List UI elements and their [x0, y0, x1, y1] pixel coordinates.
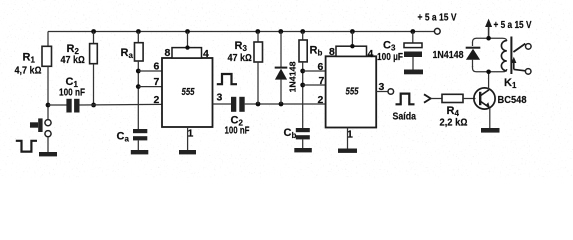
- waveform: IC1 output pulse: [217, 74, 237, 84]
- node: junction R2 on C1 wire: [91, 103, 96, 108]
- svg-text:3: 3: [217, 91, 223, 103]
- node: junction R1/C1 wire: [46, 103, 51, 108]
- wire: C1 right to IC1 pin 2: [80, 103, 163, 106]
- transistor Q1 BC548: [474, 88, 527, 109]
- wire: R1 bottom to pushbutton: [47, 66, 49, 119]
- svg-text:2: 2: [318, 94, 324, 106]
- svg-text:+ 5 a 15 V: + 5 a 15 V: [418, 13, 457, 24]
- arrow: signal into R4: [424, 94, 442, 102]
- wire: C3 to ground: [412, 57, 414, 70]
- svg-text:47 kΩ: 47 kΩ: [61, 55, 86, 66]
- ground: IC1 pin 1: [179, 150, 196, 154]
- svg-text:7: 7: [319, 75, 325, 87]
- ground: IC2 pin 1: [338, 149, 357, 153]
- svg-text:555: 555: [346, 87, 359, 98]
- node: Ra line junction pin6: [136, 69, 141, 74]
- wire: Ra bottom down to Ca: [137, 61, 139, 129]
- svg-text:4,7 kΩ: 4,7 kΩ: [15, 66, 42, 77]
- ground: below Cb: [294, 148, 312, 152]
- wire: C2 to IC2 pin 2: [245, 103, 326, 105]
- wire: relay top: [473, 38, 507, 46]
- pushbutton S1 contact circles: [45, 120, 51, 137]
- pin 7 label IC2: [319, 75, 325, 87]
- wire: C1 left segment: [48, 104, 67, 106]
- capacitor Ca: [117, 129, 148, 144]
- svg-text:100 nF: 100 nF: [59, 87, 85, 98]
- svg-text:6: 6: [318, 61, 324, 73]
- svg-text:47 kΩ: 47 kΩ: [228, 53, 253, 64]
- wire: Ra from rail: [137, 32, 139, 43]
- pin 1 label IC1: [188, 127, 194, 139]
- resistor R1: [15, 46, 52, 76]
- svg-text:+ 5 a 15 V: + 5 a 15 V: [494, 20, 532, 31]
- wire: R2 bottom to C1 wire: [93, 64, 95, 105]
- svg-text:8: 8: [165, 47, 171, 59]
- wire: collector up to relay: [488, 72, 490, 90]
- diode D1 1N4148: [275, 32, 298, 105]
- node: junction R3 on pin2 wire: [256, 102, 261, 107]
- svg-text:BC548: BC548: [498, 94, 527, 106]
- wire: to IC2 pin 7: [303, 84, 326, 86]
- wire: to IC1 pin 6: [138, 70, 162, 72]
- svg-text:6: 6: [154, 61, 160, 73]
- wire: Ca to ground: [137, 140, 139, 150]
- capacitor C1: [59, 76, 85, 112]
- wire: to IC1 pin 7: [138, 86, 162, 88]
- resistor Rb: [299, 40, 322, 62]
- resistor R3: [228, 40, 263, 64]
- waveform: negative trigger pulse: [16, 141, 37, 152]
- wire: Cb to ground: [302, 139, 304, 148]
- svg-text:8: 8: [329, 46, 335, 58]
- pin 6 label IC2: [318, 61, 324, 73]
- node: rail junction at R3: [255, 29, 260, 34]
- svg-text:1N4148: 1N4148: [288, 61, 298, 92]
- pin 4 label IC1: [203, 48, 209, 60]
- wire: +V top rail: [48, 31, 435, 33]
- pin 2 label IC1: [154, 94, 160, 106]
- wire: R3 from rail: [257, 32, 259, 43]
- pin 3 label IC1: [217, 91, 223, 103]
- waveform: output pulse: [396, 94, 415, 105]
- wire: R1 top from rail: [47, 32, 49, 47]
- node: Rb line junction pin7: [300, 83, 305, 88]
- pin 2 label IC2: [318, 94, 324, 106]
- svg-text:2,2 kΩ: 2,2 kΩ: [440, 117, 468, 128]
- capacitor C2: [225, 97, 250, 137]
- node: junction D1 on pin2 wire: [279, 102, 284, 107]
- label Saida: [393, 110, 417, 122]
- wire: IC1 pin3 to C2: [213, 103, 232, 105]
- op IC1 555 body: [162, 58, 213, 127]
- node: Rb line junction pin6: [300, 69, 305, 74]
- pushbutton S1 actuator: [30, 118, 43, 132]
- wire: R2 from rail: [93, 32, 95, 44]
- ground: emitter: [481, 128, 500, 133]
- svg-text:4: 4: [368, 48, 374, 60]
- node: rail junction at Ra: [136, 29, 141, 34]
- node: rail junction at IC1 supply: [185, 29, 190, 34]
- wire: R4 to base: [463, 98, 476, 100]
- diode D2 1N4148 (flyback): [433, 48, 481, 67]
- node: junction relay top / +V arrow: [486, 36, 491, 41]
- pin 7 label IC1: [154, 76, 160, 88]
- wire: R3 bottom: [257, 62, 259, 104]
- wire: to IC2 pin 6: [303, 70, 326, 72]
- IC1 supply top box pins 8-4: [172, 32, 202, 59]
- wire: IC1 pin1 to ground: [187, 127, 189, 150]
- resistor R4: [440, 94, 468, 128]
- terminal: output circle: [388, 89, 394, 95]
- node: rail junction at Rb: [300, 29, 305, 34]
- IC2 supply top box pins 8-4: [336, 32, 367, 57]
- resistor R2: [61, 43, 98, 66]
- wire: Rb from rail: [302, 32, 304, 41]
- relay K1 contact set: [511, 44, 531, 75]
- svg-text:2: 2: [154, 94, 160, 106]
- terminal: +5 a 15 V supply input: [418, 13, 457, 35]
- node: rail junction at D1: [278, 29, 283, 34]
- wire: relay bottom: [473, 66, 507, 72]
- capacitor Cb: [284, 127, 310, 140]
- wire: IC2 pin3 output: [376, 91, 388, 93]
- ground: below Ca: [131, 150, 149, 154]
- pin 8 label IC2: [329, 46, 335, 58]
- relay K1 coil: [501, 37, 517, 90]
- wire: IC2 pin1 to ground: [347, 128, 349, 149]
- node: Ra line junction pin7: [136, 84, 141, 89]
- svg-text:1N4148: 1N4148: [433, 50, 464, 61]
- svg-text:1: 1: [188, 127, 194, 139]
- terminal: +5 a 15 V relay supply arrow: [485, 19, 532, 39]
- node: rail junction at IC2 supply: [350, 29, 355, 34]
- resistor Ra: [121, 43, 144, 61]
- wire: emitter down: [489, 108, 491, 128]
- pin 1 label IC2: [347, 128, 353, 140]
- node: rail junction at C3: [410, 29, 415, 34]
- capacitor C3 (polarized): [377, 39, 422, 62]
- wire: Rb bottom down to Cb (crosses pin2 wire): [302, 62, 304, 128]
- wire: C3 from rail: [412, 32, 414, 44]
- ground: below C3: [404, 70, 423, 75]
- svg-text:4: 4: [203, 48, 209, 60]
- wire: pushbutton to ground: [47, 137, 49, 152]
- node: rail junction at R2: [91, 29, 96, 34]
- svg-text:7: 7: [154, 76, 160, 88]
- svg-text:100 nF: 100 nF: [225, 125, 250, 136]
- op IC2 555 body: [326, 56, 377, 127]
- pin 4 label IC2: [368, 48, 374, 60]
- pin 6 label IC1: [154, 61, 160, 73]
- pin 3 label IC2: [379, 81, 385, 93]
- pin 8 label IC1: [165, 47, 171, 59]
- ground: below pushbutton: [39, 152, 57, 156]
- svg-text:100 µF: 100 µF: [377, 52, 403, 63]
- svg-text:555: 555: [182, 87, 195, 98]
- svg-text:Saída: Saída: [393, 110, 417, 122]
- node: junction relay bottom / collector: [486, 70, 491, 75]
